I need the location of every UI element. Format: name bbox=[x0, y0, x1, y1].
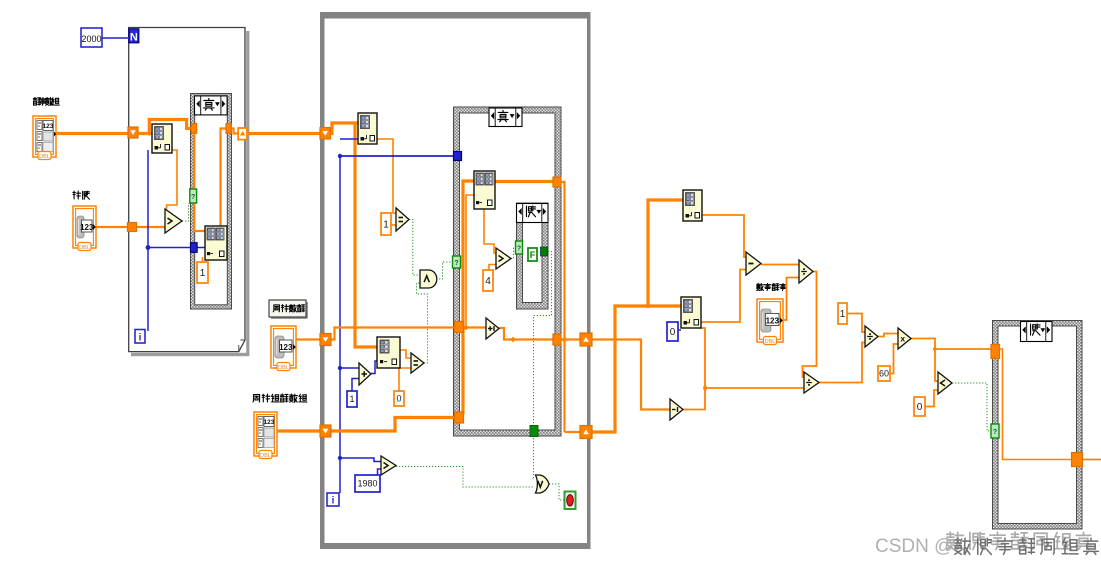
wire divide1 out to divide2 top bbox=[803, 272, 817, 378]
svg-text:1980: 1980 bbox=[357, 479, 377, 489]
tunnel CS1 top-left bbox=[191, 124, 196, 134]
node replace-array CS1 bbox=[205, 226, 227, 260]
wire decrement out up to idx2 pin bbox=[683, 328, 705, 410]
wire CS2 right tunnel1 vertical bbox=[561, 182, 565, 432]
case structure CS2 frame bbox=[454, 107, 562, 436]
tunnel CS2 bottom green bbox=[530, 426, 538, 437]
tunnel CS2 right2 bbox=[553, 334, 561, 345]
wire blue to CS2 blue tunnel bbox=[340, 155, 454, 157]
tunnel CS2 B bbox=[455, 412, 464, 423]
junction diamond CS2-A bbox=[463, 325, 469, 331]
wire for1 i up to index input bbox=[147, 150, 149, 248]
node index-array R1 bbox=[683, 190, 702, 221]
indicator label period-times bbox=[253, 395, 260, 402]
control RPM-array terminal bbox=[33, 116, 56, 157]
svg-text:?: ? bbox=[454, 260, 458, 267]
node divide1 bbox=[799, 260, 813, 283]
svg-text:4: 4 bbox=[485, 276, 491, 287]
junction diamond CS2-B bbox=[510, 337, 516, 343]
tunnel CS2 blue bbox=[454, 152, 462, 161]
node replace-array CS2 bbox=[474, 171, 495, 209]
svg-text:?: ? bbox=[993, 429, 997, 436]
wire CS3 inside pass-through bbox=[999, 349, 1072, 460]
constant F inner bbox=[528, 248, 537, 261]
node OR gate bbox=[536, 475, 550, 493]
tunnel CS3 selector bbox=[991, 424, 999, 438]
wire divide3 to multiply bbox=[878, 334, 898, 337]
case structure CS2 selector label True bbox=[489, 108, 522, 127]
wire F to inner-case tunnel bbox=[537, 251, 541, 253]
wire CS2 tunnel-B up to replace2 bbox=[463, 181, 474, 414]
constant 1980 bbox=[355, 475, 380, 492]
constant 0 blue bbox=[667, 322, 678, 341]
wire replace2 out to CS2 right tunnel bbox=[495, 180, 553, 183]
wire divide2 out to divide3 bottom bbox=[819, 343, 865, 383]
wire idx1 out to subtract bbox=[702, 215, 746, 257]
wire greater1980 to OR bbox=[396, 467, 534, 488]
node plus-one CS2 bbox=[486, 318, 499, 339]
tunnel WL in2 bbox=[320, 334, 331, 346]
wire branch to CS3 tunnel bbox=[935, 348, 991, 350]
for-loop FL1 frame bbox=[129, 28, 245, 352]
node decrement bbox=[670, 399, 683, 420]
wire tunnel to CS2 tunnel-B bbox=[331, 418, 455, 432]
for-loop FL1 count terminal N bbox=[129, 29, 139, 43]
wire replace2 down to greater top bbox=[484, 209, 496, 253]
wire vertical to while out2 bbox=[565, 431, 587, 433]
node divide2 bbox=[804, 372, 819, 393]
node build-array WL bbox=[377, 337, 400, 368]
svg-text:123: 123 bbox=[279, 343, 293, 352]
case structure CS3 frame bbox=[993, 321, 1083, 530]
tunnel CS2 right1 bbox=[553, 177, 561, 187]
case structure CS-inner frame bbox=[517, 203, 549, 309]
wire branch up to idx1 bbox=[648, 200, 683, 306]
wire CS2 right tunnel2 to while out1 bbox=[561, 338, 586, 340]
constant 1 right bbox=[838, 303, 847, 324]
wire equals to AND top bbox=[409, 220, 420, 276]
wire idx2 out to subtract bbox=[701, 270, 746, 323]
svg-text:DBL: DBL bbox=[39, 154, 50, 160]
svg-text:123: 123 bbox=[766, 316, 780, 325]
constant 1 CS1 bbox=[197, 262, 208, 283]
svg-text:i: i bbox=[332, 496, 335, 507]
node subtract bbox=[746, 252, 761, 275]
wire CS1 right-tunnel to FL1 out tunnel bbox=[231, 129, 238, 134]
junction dot blue FL1 bbox=[146, 245, 151, 250]
node increment WL bbox=[359, 363, 371, 385]
wire blue to greater1980 bbox=[340, 458, 381, 462]
wire branch up to replace2 mid input bbox=[466, 195, 474, 328]
svg-text:60: 60 bbox=[879, 369, 889, 379]
node greater CS2 bbox=[496, 248, 511, 269]
svg-text:DBL: DBL bbox=[278, 365, 289, 371]
node index-array WL bbox=[358, 113, 377, 144]
tunnel CS1 blue bbox=[191, 243, 198, 253]
wire AND out to CS2 selector tunnel bbox=[436, 262, 453, 279]
constant 4 CS2 bbox=[483, 270, 493, 291]
tunnel WL out1 bbox=[580, 333, 592, 346]
case structure CS1 selector label True bbox=[195, 96, 228, 115]
node greater FL1 bbox=[165, 209, 182, 233]
wire index-array bypass over to CS1 tunnel bbox=[149, 120, 191, 134]
stop button bbox=[565, 492, 576, 510]
svg-text:x: x bbox=[900, 334, 905, 344]
svg-text:?: ? bbox=[517, 245, 521, 252]
svg-text:123: 123 bbox=[43, 123, 54, 130]
wire i branch to CS1 blue tunnel bbox=[148, 247, 191, 249]
node index-array R2 bbox=[681, 297, 701, 328]
while-loop frame bbox=[320, 12, 591, 19]
wire multiply out bbox=[911, 339, 938, 382]
wire blue to increment bbox=[340, 367, 359, 369]
wire FL1 out to while-loop tunnel bbox=[247, 132, 321, 135]
node AND gate bbox=[420, 270, 437, 288]
wire blue into idx-WL index input bbox=[340, 138, 358, 140]
wire subtract to divide1 bbox=[761, 264, 799, 266]
control sampling-rate terminal bbox=[757, 299, 783, 342]
control label sampling-rate bbox=[757, 283, 764, 290]
junction dot blue WL3 bbox=[338, 456, 342, 460]
svg-text:123: 123 bbox=[80, 223, 94, 232]
wire CS3 out to edge bbox=[1083, 459, 1101, 461]
tunnel CS2 selector bbox=[453, 256, 461, 268]
wire const0 to less-than bbox=[925, 390, 938, 407]
numeric constant 2000 bbox=[81, 28, 102, 47]
svg-text:DBL: DBL bbox=[765, 339, 776, 345]
tunnel WL out2 bbox=[580, 426, 592, 439]
wire threshold to greater-node bbox=[96, 226, 165, 228]
wire blue tunnel to replace index input bbox=[197, 247, 206, 249]
wire plus-one out to CS2 right tunnel2 bbox=[499, 328, 553, 340]
control label RPM-array bbox=[33, 97, 40, 105]
tunnel threshold FL1 bbox=[128, 223, 137, 232]
for-loop FL1 iteration terminal i bbox=[135, 330, 145, 344]
wire CS1 left-tunnel down to replace-node bbox=[194, 132, 206, 231]
wire junction branch down to build-array bbox=[355, 123, 377, 347]
wire idx-WL out down to equals bbox=[377, 139, 396, 213]
svg-text:123: 123 bbox=[264, 419, 275, 426]
svg-text:0: 0 bbox=[396, 394, 401, 404]
node multiply bbox=[898, 328, 911, 349]
wire period-count to while tunnel bbox=[296, 338, 321, 340]
wire increment to build-array bbox=[371, 361, 377, 374]
wire const1 to divide3 top bbox=[847, 314, 865, 333]
node while-i terminal bbox=[327, 493, 339, 506]
svg-text:DBL: DBL bbox=[260, 453, 271, 459]
wire const4 to greater bottom bbox=[489, 265, 496, 271]
case structure CS1 frame bbox=[191, 94, 232, 310]
wire const1-blue to increment bbox=[352, 379, 359, 392]
constant 60 bbox=[878, 366, 890, 381]
wire tunnel to index-array FL1 bbox=[138, 132, 152, 135]
wire const1980 to greater bbox=[378, 469, 382, 475]
node equals2 WL bbox=[411, 353, 424, 373]
node less-than bbox=[938, 372, 952, 394]
wire sampling-rate to divide1 bbox=[783, 278, 799, 321]
svg-text:1: 1 bbox=[200, 268, 206, 279]
tunnel WL in1 bbox=[320, 128, 331, 140]
case structure CS-inner selector label False bbox=[517, 204, 549, 223]
node divide3 bbox=[865, 326, 878, 347]
node greater 1980 bbox=[381, 456, 396, 475]
tunnel inner-case selector bbox=[516, 241, 523, 254]
junction diamond mult bbox=[932, 346, 937, 351]
svg-text:i: i bbox=[139, 333, 142, 344]
wire period-times to while tunnel bbox=[277, 429, 321, 432]
for-loop FL1 shadow bbox=[246, 31, 249, 353]
wire greater to CS1 selector tunnel bbox=[182, 203, 189, 221]
svg-text:0: 0 bbox=[917, 402, 923, 413]
case structure CS3 selector label False bbox=[1021, 322, 1053, 342]
wire const1 to equals bbox=[390, 224, 396, 226]
wire 2000-to-N bbox=[102, 37, 129, 39]
svg-text:DBL: DBL bbox=[79, 245, 90, 251]
junction dot right bbox=[563, 338, 567, 342]
wire while-out2 to idx nodes bbox=[592, 306, 681, 432]
wire for1 i lower segment bbox=[147, 248, 149, 332]
svg-text:1: 1 bbox=[840, 309, 846, 320]
tunnel inner-case green bbox=[541, 247, 548, 256]
tunnel CS2 A bbox=[455, 322, 464, 333]
wire while-out1 to decrement bbox=[592, 340, 670, 410]
svg-text:1: 1 bbox=[383, 220, 389, 231]
tunnel CS3 in bbox=[991, 345, 1000, 359]
wire CS2 bottom tunnel to OR bbox=[532, 435, 534, 479]
wire CS1 right-tunnel down to replace-node top bbox=[221, 129, 227, 227]
wire equals2 to AND bottom bbox=[417, 283, 428, 363]
junction dot blue WL1 bbox=[338, 154, 342, 158]
wire idx-out wrap to greater top input bbox=[167, 150, 178, 212]
watermark chinese light bbox=[947, 532, 963, 549]
wire less-than to CS3 selector bbox=[952, 383, 991, 431]
tunnel WL in3 bbox=[320, 425, 331, 437]
tunnel CS3 out bbox=[1072, 453, 1083, 467]
svg-text:?: ? bbox=[191, 194, 195, 201]
wire inner tunnel down to CS2 bottom tunnel bbox=[534, 252, 552, 425]
control label threshold bbox=[73, 191, 81, 199]
wire const-1 to replace bottom bbox=[202, 257, 204, 262]
wire const0-blue to idx2 bbox=[678, 329, 681, 331]
indicator label period-count box bbox=[269, 300, 306, 317]
indicator period-times terminal bbox=[254, 412, 277, 456]
svg-text:1: 1 bbox=[349, 394, 354, 404]
svg-text:2000: 2000 bbox=[81, 34, 101, 44]
wire decrement branch to divide2 bbox=[705, 387, 804, 389]
wire build-array to equals2 top bbox=[400, 350, 411, 358]
constant 1 eq bbox=[381, 213, 391, 235]
constant 1 blue bbox=[347, 391, 357, 407]
junction dot dec bbox=[703, 386, 707, 390]
wire const0 to equals2 bottom bbox=[399, 368, 411, 391]
junction dot A bbox=[353, 121, 357, 125]
svg-text:0: 0 bbox=[670, 327, 676, 338]
wire while tunnel to index-array WL bbox=[330, 123, 358, 134]
tunnel FL1 in bbox=[128, 127, 138, 138]
svg-text:F: F bbox=[530, 250, 536, 260]
svg-text:CSDN @: CSDN @ bbox=[875, 536, 953, 557]
wire while-i vertical bbox=[339, 156, 341, 493]
node equals WL bbox=[396, 208, 409, 231]
watermark chinese dark overlay bbox=[955, 538, 970, 554]
wire OR to stop button bbox=[549, 484, 564, 500]
svg-text:N: N bbox=[130, 32, 138, 44]
junction dot blue WL2 bbox=[338, 366, 342, 370]
tunnel CS1 selector bbox=[190, 189, 197, 203]
wire tunnel to plus-one CS2 bbox=[331, 328, 486, 340]
wire rpm-array to for-loop tunnel bbox=[56, 132, 128, 135]
control threshold terminal bbox=[73, 206, 96, 248]
wire const60 to multiply bbox=[890, 344, 898, 374]
indicator period-count terminal bbox=[271, 326, 296, 368]
node index-array FL1 bbox=[152, 124, 172, 153]
tunnel FL1 out bbox=[238, 128, 247, 140]
constant 0 orange bbox=[394, 391, 404, 406]
tunnel CS1 top-right bbox=[226, 124, 231, 134]
wire greater to inner selector tunnel bbox=[511, 248, 516, 259]
junction dot arr bbox=[646, 304, 650, 308]
constant 0 right bbox=[914, 397, 925, 416]
